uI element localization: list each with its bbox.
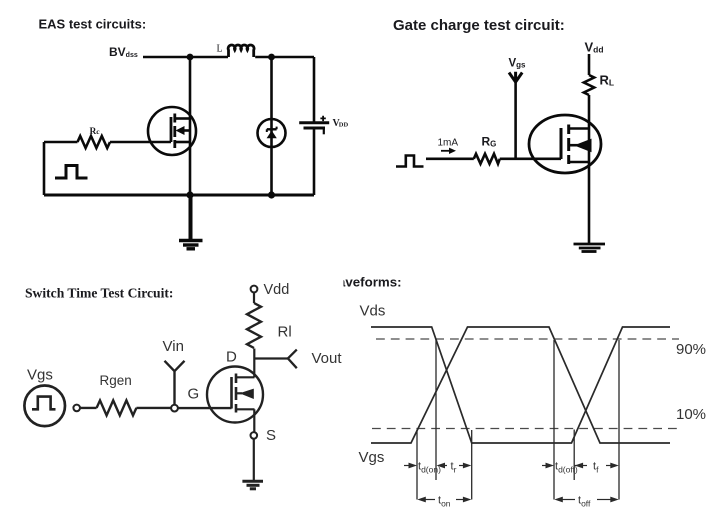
mosfet Q1 circle <box>148 107 196 155</box>
mosfet Q1 channel dashes <box>173 114 176 149</box>
node bottom diode junction dot <box>268 191 275 198</box>
resistor RG <box>474 154 500 164</box>
mosfet Q1 body finger wire <box>183 129 190 132</box>
dim tr left arrow <box>441 465 447 467</box>
wire Rgen to node G <box>136 407 171 409</box>
wire node G to gate <box>178 407 232 409</box>
mosfet Q2 channel dashes <box>567 125 570 165</box>
svg-text:D: D <box>226 349 237 366</box>
ground gate-charge <box>574 243 606 246</box>
svg-text:aveforms:: aveforms: <box>338 275 402 290</box>
wire drain trunk vertical <box>189 57 192 195</box>
svg-text:EAS test circuits:: EAS test circuits: <box>39 17 147 32</box>
diode D1 cathode bar <box>267 128 277 130</box>
resistor Rc <box>78 136 111 148</box>
wire source down to S <box>253 409 255 432</box>
svg-text:Vgs: Vgs <box>359 449 385 466</box>
terminal S circle <box>251 432 258 439</box>
antenna Vgs trident <box>509 72 522 82</box>
mosfet Q2 ellipse <box>529 115 601 173</box>
dim toff line right <box>597 499 613 501</box>
antenna Vout <box>288 350 297 369</box>
inductor L <box>228 45 254 57</box>
svg-text:Rgen: Rgen <box>100 373 132 388</box>
svg-text:G: G <box>188 386 200 403</box>
capacitor VDD top plate <box>299 121 329 124</box>
diode D1 triangle <box>267 131 277 139</box>
wire top node to inductor <box>190 56 228 59</box>
terminal circle <box>73 405 80 412</box>
wire source down <box>588 172 591 244</box>
wire terminal to Rgen <box>80 407 97 409</box>
wire S to ground <box>253 439 255 480</box>
pulse glyph input <box>55 166 88 179</box>
wire diode branch vertical <box>270 57 273 195</box>
wire inductor to diode node <box>255 56 271 59</box>
mosfet Q2 body finger wire <box>570 144 579 147</box>
diode D1 circle <box>258 119 286 147</box>
dim tr right arrow <box>459 465 466 467</box>
dashed 90% line <box>376 338 679 340</box>
source Vgs circle <box>24 386 65 427</box>
svg-text:1mA: 1mA <box>438 137 459 148</box>
mosfet Q2 source finger <box>569 161 589 164</box>
svg-text:Vgs: Vgs <box>27 367 53 384</box>
dashed 10% line <box>372 428 678 430</box>
mosfet Q3 circle <box>207 367 263 423</box>
svg-text:S: S <box>266 427 276 444</box>
mosfet Q3 drain finger <box>236 376 255 378</box>
svg-text:Vds: Vds <box>360 302 386 319</box>
wire bottom rail <box>44 194 314 197</box>
resistor RL <box>584 75 594 95</box>
wire diode node to right corner <box>272 56 315 59</box>
capacitor VDD bottom plate <box>304 127 326 130</box>
mosfet Q1 gate bar <box>170 117 173 142</box>
wire RL to drain <box>588 95 591 172</box>
wire Vdd to Rl <box>253 292 255 303</box>
node top junction dot <box>187 54 194 61</box>
vline v4 <box>553 340 555 500</box>
capacitor VDD plus sign <box>320 116 325 121</box>
vline v3 <box>471 430 473 500</box>
resistor Rl <box>247 303 261 348</box>
svg-text:Rl: Rl <box>278 324 292 341</box>
svg-text:Vin: Vin <box>163 338 184 355</box>
dim arrow into v1 <box>404 465 412 467</box>
wire right branch lower <box>313 128 316 195</box>
svg-text:Gate charge test circuit:: Gate charge test circuit: <box>393 17 565 34</box>
wire Vout branch <box>254 357 288 359</box>
vline v5 <box>573 430 575 481</box>
mosfet Q1 drain finger <box>175 117 190 120</box>
wire RG to gate <box>500 158 561 161</box>
svg-text:90%: 90% <box>676 341 706 358</box>
wire Vgs vertical <box>514 81 517 159</box>
wire drain trunk up <box>253 349 255 378</box>
ground stem <box>189 195 193 239</box>
trace Vgs <box>371 327 670 443</box>
dim tf right arrow <box>606 465 613 467</box>
vline v1 <box>416 430 418 500</box>
svg-text:Vout: Vout <box>312 350 343 367</box>
terminal Vdd circle <box>251 286 258 293</box>
svg-text:Vdd: Vdd <box>264 282 290 298</box>
mosfet Q1 source finger <box>175 141 190 144</box>
capacitor VDD tick <box>323 128 325 134</box>
wire BVdss to top node <box>143 56 190 59</box>
vline v2 <box>435 340 437 480</box>
dim toff line left <box>559 499 575 501</box>
svg-text:L: L <box>217 44 223 55</box>
pulse glyph gate charge <box>396 156 424 167</box>
svg-text:10%: 10% <box>676 406 706 423</box>
node bottom drain junction dot <box>186 191 193 198</box>
mosfet Q1 body arrow <box>176 126 185 135</box>
svg-text:DD: DD <box>339 122 349 129</box>
wire left vertical <box>43 142 46 195</box>
mosfet Q3 body finger wire <box>237 392 243 394</box>
wire Vdd down to RL <box>588 54 591 75</box>
arrow 1mA <box>441 150 451 152</box>
vline v6 <box>618 340 620 500</box>
mosfet Q3 channel dashes <box>235 374 238 413</box>
wire pulse to RG <box>426 158 474 161</box>
mosfet Q2 body arrow wedge <box>574 139 592 153</box>
wire right branch upper <box>313 57 316 122</box>
mosfet Q2 drain finger <box>569 127 589 130</box>
diode D1 zener wings <box>267 127 277 132</box>
mosfet Q3 body arrow wedge <box>240 389 254 399</box>
resistor Rgen <box>97 400 137 415</box>
dim ton line left <box>422 499 435 501</box>
ground bars <box>179 239 203 242</box>
dim ton line right <box>456 499 467 501</box>
node G circle <box>171 405 178 412</box>
dim tf left arrow <box>575 465 587 467</box>
source pulse glyph <box>32 397 56 410</box>
mosfet Q2 gate bar <box>560 128 563 159</box>
node diode-branch junction dot <box>268 54 275 61</box>
wire Rc to gate <box>110 141 171 144</box>
trace Vds <box>371 327 670 443</box>
ground switch-time <box>242 480 263 483</box>
mosfet Q3 source finger <box>236 408 255 410</box>
dim arrow into v4 <box>542 465 549 467</box>
mosfet Q3 gate bar <box>230 377 233 409</box>
antenna Vin <box>165 361 185 405</box>
svg-text:Switch Time Test Circuit:: Switch Time Test Circuit: <box>25 285 173 300</box>
wire gate lead with resistor Rc <box>44 141 78 144</box>
